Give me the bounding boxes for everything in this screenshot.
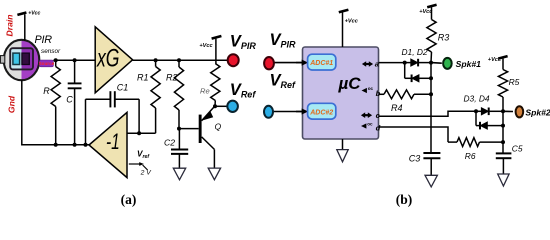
svg-text:PIR: PIR [35, 34, 53, 46]
svg-text:(a): (a) [121, 192, 137, 207]
svg-text:oc: oc [367, 121, 373, 126]
svg-text:R6: R6 [465, 151, 476, 161]
svg-text:ADC#1: ADC#1 [309, 60, 333, 67]
svg-text:C1: C1 [117, 83, 129, 93]
svg-text:D1, D2: D1, D2 [402, 47, 428, 57]
svg-text:Drain: Drain [5, 15, 15, 37]
svg-text:a: a [375, 60, 379, 69]
svg-text:R4: R4 [391, 103, 403, 113]
svg-text:sensor: sensor [41, 48, 61, 55]
svg-text:-1: -1 [106, 129, 120, 154]
svg-text:R5: R5 [509, 77, 520, 87]
svg-text:Spk#2: Spk#2 [525, 107, 550, 117]
svg-text:(b): (b) [396, 192, 413, 207]
svg-text:Source: Source [39, 61, 55, 66]
svg-text:Q: Q [215, 122, 222, 132]
svg-text:+Vcc: +Vcc [345, 19, 359, 25]
svg-text:+Vcc: +Vcc [199, 43, 213, 49]
svg-text:xG: xG [96, 45, 119, 73]
svg-text:D3, D4: D3, D4 [464, 94, 490, 104]
svg-text:C: C [66, 95, 73, 105]
svg-text:µC: µC [338, 74, 362, 93]
svg-text:R1: R1 [137, 73, 149, 83]
svg-text:C3: C3 [409, 154, 421, 164]
svg-text:R2: R2 [166, 73, 178, 83]
svg-text:C5: C5 [512, 144, 523, 154]
svg-text:R: R [43, 86, 50, 96]
svg-text:Re: Re [200, 87, 210, 96]
svg-text:2 V: 2 V [140, 170, 153, 177]
svg-text:ADC#2: ADC#2 [309, 109, 333, 116]
svg-text:+Vcc: +Vcc [28, 11, 40, 17]
svg-text:Gnd: Gnd [6, 95, 16, 113]
svg-text:Spk#1: Spk#1 [456, 59, 482, 69]
svg-text:R3: R3 [438, 33, 450, 43]
svg-text:b: b [376, 89, 381, 98]
svg-text:oc: oc [368, 86, 374, 91]
svg-text:d: d [376, 123, 381, 132]
svg-text:C2: C2 [164, 138, 175, 148]
